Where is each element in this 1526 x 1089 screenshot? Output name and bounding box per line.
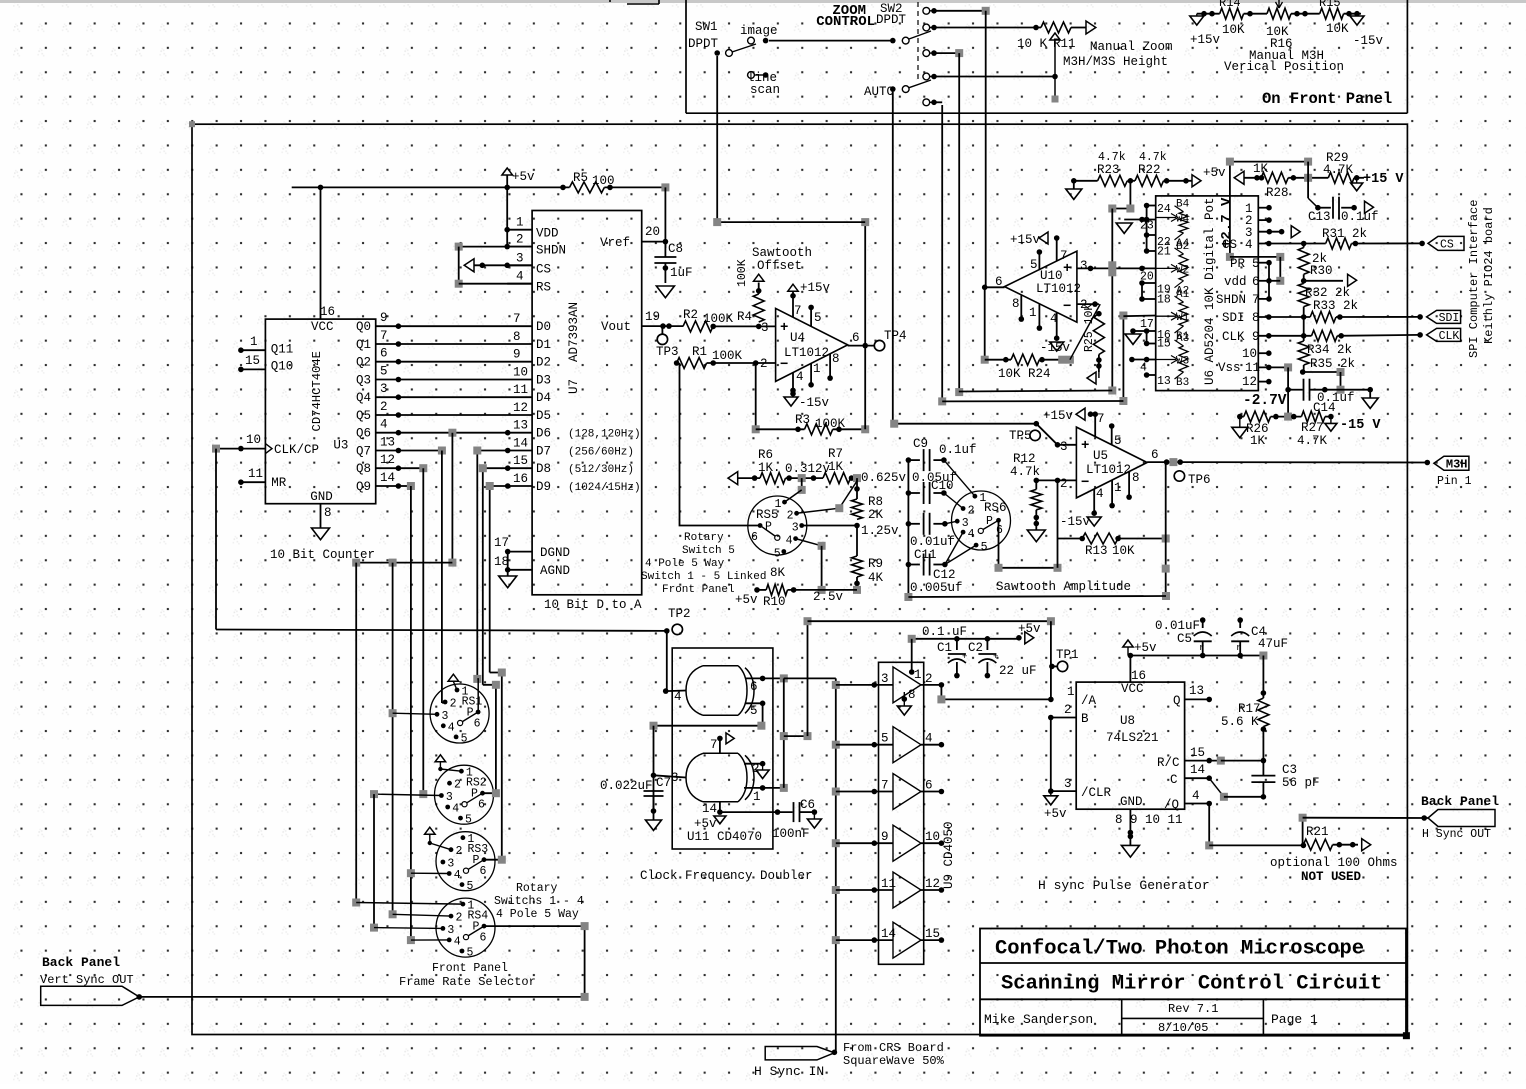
svg-text:5: 5 xyxy=(774,548,781,561)
svg-text:2: 2 xyxy=(787,509,794,522)
svg-text:22 uF: 22 uF xyxy=(999,664,1037,678)
svg-text:SDI: SDI xyxy=(1222,311,1245,325)
svg-text:16: 16 xyxy=(320,305,335,319)
svg-text:D0: D0 xyxy=(536,320,551,334)
svg-text:1: 1 xyxy=(1029,306,1037,320)
svg-text:SDI: SDI xyxy=(1439,312,1460,325)
capacitor C12 0.005uf xyxy=(908,564,920,566)
svg-text:/A: /A xyxy=(1081,694,1097,708)
svg-text:2: 2 xyxy=(450,698,457,711)
svg-text:4.7k: 4.7k xyxy=(1010,465,1040,479)
svg-text:1: 1 xyxy=(1067,685,1075,699)
svg-text:R33 2k: R33 2k xyxy=(1313,299,1358,313)
svg-text:14: 14 xyxy=(702,802,717,816)
svg-text:R/C: R/C xyxy=(1157,756,1180,770)
svg-text:U5: U5 xyxy=(1093,449,1108,463)
svg-text:2: 2 xyxy=(516,233,524,247)
wire feedback diagonal xyxy=(1070,304,1100,360)
svg-text:16: 16 xyxy=(1131,669,1146,683)
wire to U5 +input xyxy=(894,424,1076,445)
wire XOR out loop xyxy=(783,678,785,788)
ground xyxy=(1027,530,1045,542)
svg-text:11: 11 xyxy=(881,877,896,891)
capacitor C14 0.1uf xyxy=(1288,389,1303,391)
svg-text:24: 24 xyxy=(1157,203,1171,216)
artifact top left xyxy=(627,3,659,5)
svg-text:13: 13 xyxy=(380,436,395,450)
svg-text:B2: B2 xyxy=(1176,241,1189,253)
svg-text:+5v: +5v xyxy=(1018,622,1041,636)
svg-text:Switch 5: Switch 5 xyxy=(682,545,735,557)
resistor R27 4.7K xyxy=(1301,411,1325,422)
pin 8 stub xyxy=(1020,295,1022,319)
svg-text:16: 16 xyxy=(513,472,528,486)
resistor R24 10K xyxy=(984,287,986,359)
svg-text:4: 4 xyxy=(452,803,459,816)
svg-text:6: 6 xyxy=(380,347,388,361)
svg-text:AUTO: AUTO xyxy=(864,85,894,99)
svg-text:3: 3 xyxy=(881,672,889,686)
pin 3 xyxy=(654,775,687,777)
svg-text:-2.7V: -2.7V xyxy=(1243,393,1287,409)
svg-text:7: 7 xyxy=(710,738,718,752)
pin 16 D9 xyxy=(490,485,532,487)
svg-text:NOT USED: NOT USED xyxy=(1301,870,1362,884)
svg-text:D7: D7 xyxy=(536,445,551,459)
svg-text:C5: C5 xyxy=(1177,632,1192,646)
wire xyxy=(1303,371,1341,373)
svg-text:4 Pole 5 Way: 4 Pole 5 Way xyxy=(496,908,579,921)
svg-text:U4: U4 xyxy=(790,331,805,345)
svg-text:A3: A3 xyxy=(1176,333,1189,345)
svg-text:7: 7 xyxy=(881,779,889,793)
svg-text:15: 15 xyxy=(245,354,260,368)
op-amp U4 LT1012 xyxy=(776,308,848,381)
svg-text:CONTROL: CONTROL xyxy=(816,14,875,30)
svg-text:R22: R22 xyxy=(1138,163,1161,177)
svg-text:2: 2 xyxy=(456,912,463,925)
ground xyxy=(499,576,517,588)
svg-text:U3: U3 xyxy=(333,438,348,452)
svg-text:+: + xyxy=(780,320,788,336)
svg-text:R32 2k: R32 2k xyxy=(1305,286,1350,300)
svg-text:7: 7 xyxy=(1060,249,1068,263)
wire xyxy=(506,187,508,246)
svg-text:vdd: vdd xyxy=(1224,275,1247,289)
svg-text:4: 4 xyxy=(968,528,975,541)
svg-text:R17: R17 xyxy=(1238,702,1261,716)
test point TP2 xyxy=(672,624,682,634)
wire 1.25v node xyxy=(802,525,857,527)
svg-text:12: 12 xyxy=(925,877,940,891)
svg-text:6: 6 xyxy=(480,932,487,945)
pin 3 /CLR xyxy=(1051,790,1076,792)
pin 13 Q xyxy=(1185,698,1210,700)
resistor R28 1K xyxy=(1234,171,1244,184)
svg-text:5: 5 xyxy=(1114,434,1122,448)
pin 4 stub xyxy=(792,373,794,397)
wire xyxy=(1112,181,1130,209)
svg-text:M3H: M3H xyxy=(1446,457,1468,471)
svg-text:R15: R15 xyxy=(1319,0,1341,10)
resistor R10 8K xyxy=(757,589,766,591)
svg-text:8K: 8K xyxy=(770,566,786,580)
wire xyxy=(1268,263,1270,299)
svg-text:Keithly PIO24 board: Keithly PIO24 board xyxy=(1482,207,1496,344)
tag CS xyxy=(1428,236,1464,250)
title block xyxy=(980,929,1406,1036)
svg-text:B: B xyxy=(1081,712,1089,726)
wire W3 xyxy=(1132,359,1156,361)
wire U6 left ties xyxy=(1146,206,1148,252)
svg-text:R34 2k: R34 2k xyxy=(1307,343,1352,357)
ground flag RS3 xyxy=(425,827,436,834)
svg-text:10: 10 xyxy=(246,433,261,447)
wire RS5-4 drop xyxy=(796,539,822,546)
svg-text:0.005uf: 0.005uf xyxy=(910,581,963,595)
svg-text:5: 5 xyxy=(750,704,758,718)
svg-text:C12: C12 xyxy=(933,568,956,582)
pin 2 SHDN xyxy=(507,246,532,248)
svg-text:3: 3 xyxy=(761,321,769,335)
svg-text:10 Bit D to A: 10 Bit D to A xyxy=(544,598,642,612)
pin 4 stub xyxy=(1056,313,1058,339)
wire xyxy=(801,478,803,490)
svg-text:1.25v: 1.25v xyxy=(861,524,899,538)
wire xyxy=(934,76,1000,78)
wire RS4 pole to Vert Sync OUT xyxy=(139,926,584,997)
wire xyxy=(769,40,893,42)
svg-text:10K: 10K xyxy=(1112,544,1135,558)
svg-text:D1: D1 xyxy=(536,338,551,352)
svg-text:1: 1 xyxy=(250,335,258,349)
svg-text:13: 13 xyxy=(1189,684,1204,698)
IC U7 AD7393AN 10 bit DAC xyxy=(532,211,642,595)
svg-text:LT1012: LT1012 xyxy=(1086,463,1131,477)
svg-text:8: 8 xyxy=(324,506,332,520)
svg-text:8: 8 xyxy=(1012,297,1020,311)
svg-text:U11 CD4070: U11 CD4070 xyxy=(687,830,762,844)
buffer U9 c xyxy=(832,788,840,796)
test point TP1 xyxy=(1057,661,1067,671)
svg-text:-15v: -15v xyxy=(1353,34,1384,48)
svg-text:1K: 1K xyxy=(1250,434,1266,448)
pin 5 stub xyxy=(1111,426,1113,445)
wire xyxy=(507,552,509,576)
svg-text:LT1012: LT1012 xyxy=(1036,282,1081,296)
wire A2-A1 tie xyxy=(1141,283,1143,299)
wire Q9 route xyxy=(398,485,411,487)
svg-text:Rev 7.1: Rev 7.1 xyxy=(1168,1002,1218,1016)
svg-text:1: 1 xyxy=(914,668,922,682)
svg-text:On Front Panel: On Front Panel xyxy=(1262,90,1392,108)
svg-text:3: 3 xyxy=(516,251,524,265)
svg-text:Offset: Offset xyxy=(757,259,802,273)
svg-text:R4: R4 xyxy=(737,310,752,324)
svg-text:7: 7 xyxy=(380,329,388,343)
svg-text:100K: 100K xyxy=(736,259,749,287)
svg-text:C9: C9 xyxy=(913,437,928,451)
wire cap-contact diagonals xyxy=(944,460,975,496)
power +15v xyxy=(788,284,798,291)
svg-text:R27: R27 xyxy=(1301,421,1324,435)
buffer U9 b xyxy=(832,741,840,749)
svg-text:Vss: Vss xyxy=(1218,361,1241,375)
svg-text:U6 AD5204 10K Digital Pot: U6 AD5204 10K Digital Pot xyxy=(1203,197,1217,385)
svg-text:TP4: TP4 xyxy=(884,329,907,343)
svg-text:5: 5 xyxy=(881,732,889,746)
svg-text:20: 20 xyxy=(645,225,660,239)
power +5v xyxy=(502,168,513,175)
svg-text:0.1 uF: 0.1 uF xyxy=(922,625,967,639)
svg-text:SHDN: SHDN xyxy=(1216,293,1246,307)
svg-text:DPDT: DPDT xyxy=(876,13,907,27)
svg-text:4K: 4K xyxy=(868,571,884,585)
svg-text:U7: U7 xyxy=(567,379,581,394)
svg-text:0.312v: 0.312v xyxy=(785,462,831,476)
pin 8 D1 xyxy=(398,343,532,345)
pin 7 D0 xyxy=(398,325,532,327)
pin 1 stub xyxy=(1111,480,1113,506)
potentiometer R16 network R14 R15 10K xyxy=(1197,13,1220,15)
wire SHDN-RS loop xyxy=(459,246,532,248)
svg-text:r: r xyxy=(1199,643,1204,653)
svg-text:GND: GND xyxy=(1120,795,1143,809)
pin 1 VDD xyxy=(507,229,532,231)
svg-text:10: 10 xyxy=(513,366,528,380)
rotary switch RS2 xyxy=(435,765,494,824)
svg-text:8: 8 xyxy=(832,352,840,366)
wire xyxy=(934,10,986,12)
wire RS1 contact3 route xyxy=(389,559,397,567)
svg-text:Q10: Q10 xyxy=(271,360,294,374)
svg-text:2: 2 xyxy=(1064,703,1072,717)
svg-text:R8: R8 xyxy=(868,495,883,509)
svg-text:Vref: Vref xyxy=(600,236,630,250)
wire +2.7V rail xyxy=(1230,162,1308,257)
svg-text:Q3: Q3 xyxy=(356,374,371,388)
svg-text:Clock Frequency Doubler: Clock Frequency Doubler xyxy=(640,869,813,883)
wire RS6 pole loop xyxy=(999,520,1058,568)
svg-text:5: 5 xyxy=(465,814,472,827)
svg-text:7: 7 xyxy=(794,304,802,318)
svg-text:B3: B3 xyxy=(1176,377,1189,389)
svg-text:1: 1 xyxy=(813,362,821,376)
pin 12 D5 xyxy=(398,414,532,416)
wire Q6 route xyxy=(398,432,507,434)
svg-text:3: 3 xyxy=(1080,259,1088,273)
svg-text:Page 1: Page 1 xyxy=(1271,1012,1318,1027)
ground flag RS1 xyxy=(448,674,459,681)
svg-text:4: 4 xyxy=(516,270,524,284)
svg-text:12: 12 xyxy=(380,453,395,467)
svg-text:+15v: +15v xyxy=(1010,233,1041,247)
pin 8 ground xyxy=(902,696,908,702)
power -15v xyxy=(784,397,798,406)
svg-text:74LS221: 74LS221 xyxy=(1106,731,1159,745)
svg-text:scan: scan xyxy=(750,83,780,97)
svg-text:U10: U10 xyxy=(1040,269,1063,283)
svg-text:14: 14 xyxy=(513,437,528,451)
wire W1 xyxy=(1123,315,1155,318)
svg-text:optional 100 Ohms: optional 100 Ohms xyxy=(1270,856,1398,870)
buffer U9 f xyxy=(832,936,840,944)
svg-text:VCC: VCC xyxy=(1121,682,1144,696)
pin 1 xyxy=(744,787,763,789)
svg-text:+15 V: +15 V xyxy=(1363,172,1404,187)
svg-text:5: 5 xyxy=(814,311,822,325)
svg-text:4: 4 xyxy=(674,690,682,704)
wire xyxy=(1050,718,1052,792)
svg-text:4: 4 xyxy=(454,935,461,948)
svg-text:Back Panel: Back Panel xyxy=(42,955,120,970)
svg-text:3: 3 xyxy=(792,522,799,535)
IC U6 AD5204 10K digital pot xyxy=(1156,196,1259,391)
svg-text:6: 6 xyxy=(750,680,758,694)
power +5v xyxy=(1044,796,1058,805)
pin 1 xyxy=(1258,207,1269,209)
rotary switch RS4 xyxy=(436,898,495,957)
power +5v flag xyxy=(1123,640,1133,647)
svg-text:-15v: -15v xyxy=(1060,515,1091,529)
svg-text:3: 3 xyxy=(380,382,388,396)
wire pin5 loop xyxy=(654,703,763,725)
svg-text:10K R24: 10K R24 xyxy=(998,367,1051,381)
svg-text:+5v: +5v xyxy=(512,170,535,184)
svg-text:D8: D8 xyxy=(536,462,551,476)
svg-text:Q0: Q0 xyxy=(356,320,371,334)
wire xyxy=(864,222,866,429)
svg-text:4: 4 xyxy=(925,732,933,746)
IC U11 CD4070 xyxy=(672,648,773,849)
svg-text:CLK: CLK xyxy=(1439,330,1460,343)
svg-text:D5: D5 xyxy=(536,409,551,423)
svg-text:3: 3 xyxy=(1060,440,1068,454)
buffer U9 d xyxy=(832,839,840,847)
wire to back panel xyxy=(1302,818,1304,846)
resistor R4 100K xyxy=(754,274,765,281)
svg-text:C14: C14 xyxy=(1313,401,1336,415)
svg-text:Q11: Q11 xyxy=(271,343,294,357)
svg-text:14: 14 xyxy=(881,927,896,941)
svg-text:15: 15 xyxy=(1190,746,1205,760)
svg-text:100nF: 100nF xyxy=(772,827,810,841)
svg-text:Q5: Q5 xyxy=(356,409,371,423)
wire xyxy=(934,52,959,54)
svg-text:5: 5 xyxy=(1252,257,1260,271)
svg-text:10K: 10K xyxy=(1326,22,1349,36)
resistor R6 1K xyxy=(728,472,738,485)
pin 8 stub xyxy=(829,354,831,378)
svg-text:8: 8 xyxy=(513,330,521,344)
svg-text:C8: C8 xyxy=(668,242,683,256)
svg-text:CS: CS xyxy=(536,262,551,276)
svg-text:TP5: TP5 xyxy=(1009,429,1032,443)
svg-text:9: 9 xyxy=(380,311,388,325)
test point TP5 xyxy=(1030,430,1040,440)
svg-text:Scanning Mirror Control Circui: Scanning Mirror Control Circuit xyxy=(1001,973,1382,996)
svg-text:Q6: Q6 xyxy=(356,427,371,441)
border frame xyxy=(192,124,1407,1034)
svg-text:Q2: Q2 xyxy=(356,356,371,370)
tag SDI xyxy=(1427,310,1461,323)
svg-text:15: 15 xyxy=(1157,338,1171,351)
svg-text:+: + xyxy=(962,652,967,662)
wire output xyxy=(1147,461,1180,463)
svg-text:2.5v: 2.5v xyxy=(813,590,844,604)
wire xyxy=(934,101,942,103)
svg-text:VCC: VCC xyxy=(311,320,334,334)
svg-text:Sawtooth: Sawtooth xyxy=(752,246,812,260)
svg-text:AD7393AN: AD7393AN xyxy=(567,302,581,362)
svg-text:D3: D3 xyxy=(536,374,551,388)
svg-text:H Sync IN: H Sync IN xyxy=(754,1064,824,1079)
svg-text:Q8: Q8 xyxy=(356,462,371,476)
wire buffer1 out to U8 xyxy=(941,685,1050,700)
svg-text:DPDT: DPDT xyxy=(688,37,719,51)
svg-text:5: 5 xyxy=(461,732,468,745)
svg-text:SW1: SW1 xyxy=(695,20,718,34)
svg-text:U9 CD4050: U9 CD4050 xyxy=(942,821,956,889)
svg-text:4: 4 xyxy=(448,721,455,734)
pin 11 D4 xyxy=(398,396,532,398)
svg-text:-15v: -15v xyxy=(799,396,830,410)
wire xyxy=(934,27,1005,29)
svg-text:5.6 K: 5.6 K xyxy=(1221,715,1259,729)
wire xyxy=(1208,804,1210,846)
svg-text:18: 18 xyxy=(494,555,509,569)
svg-text:C7: C7 xyxy=(656,776,671,790)
op-amp U10 LT1012 xyxy=(1005,251,1077,322)
svg-text:R30: R30 xyxy=(1310,264,1333,278)
svg-text:1K: 1K xyxy=(1253,162,1269,176)
svg-text:21: 21 xyxy=(1157,246,1171,259)
pin 5 stub xyxy=(810,307,812,326)
svg-text:Pin 1: Pin 1 xyxy=(1437,475,1472,488)
svg-text:−: − xyxy=(1063,299,1071,315)
wire xyxy=(666,631,668,691)
pin 20 Vref xyxy=(642,241,666,243)
svg-text:8: 8 xyxy=(1252,311,1260,325)
wire xyxy=(1307,162,1309,199)
svg-text:CLK/CP: CLK/CP xyxy=(274,443,319,457)
svg-text:6: 6 xyxy=(751,531,758,544)
svg-text:+5v: +5v xyxy=(735,593,758,607)
svg-text:Q1: Q1 xyxy=(356,338,371,352)
svg-text:12: 12 xyxy=(513,401,528,415)
wire xyxy=(604,186,665,188)
wire TP2 row xyxy=(215,449,217,630)
svg-text:H Sync OUT: H Sync OUT xyxy=(1422,828,1491,841)
svg-text:RS6: RS6 xyxy=(984,501,1007,515)
svg-text:CLK: CLK xyxy=(1222,330,1245,344)
svg-text:14: 14 xyxy=(1190,763,1205,777)
svg-text:6: 6 xyxy=(996,524,1003,537)
svg-text:1: 1 xyxy=(516,216,524,230)
svg-text:(128,120Hz): (128,120Hz) xyxy=(568,429,641,441)
svg-text:+5v: +5v xyxy=(1044,807,1067,821)
svg-text:Switchs 1 - 4: Switchs 1 - 4 xyxy=(494,895,584,908)
XOR gate U11a xyxy=(703,666,738,716)
svg-text:Frame Rate Selector: Frame Rate Selector xyxy=(399,975,536,989)
svg-text:4: 4 xyxy=(1192,789,1200,803)
wire xyxy=(1209,778,1224,797)
svg-text:9: 9 xyxy=(513,348,521,362)
ground xyxy=(1369,390,1371,398)
svg-text:7: 7 xyxy=(1097,412,1105,426)
wire xyxy=(1122,316,1124,402)
svg-text:6: 6 xyxy=(1151,448,1159,462)
